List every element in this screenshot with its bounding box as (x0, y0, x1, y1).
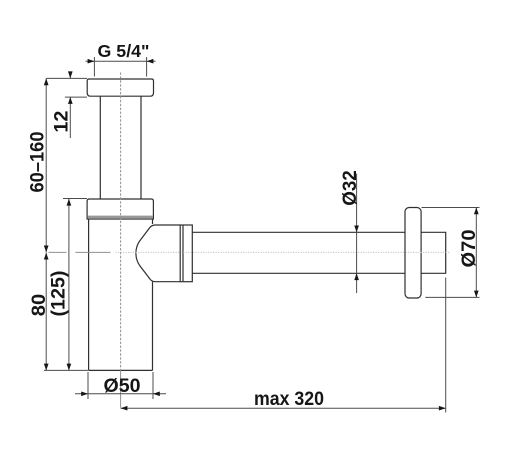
label 12 (51, 110, 73, 132)
dimension (125) (body overall height) (63, 199, 87, 371)
dimension O50 (cup diameter) (75, 372, 166, 399)
pipe end behind wall flange (421, 232, 446, 273)
label 80 (28, 294, 50, 317)
trap cup body (89, 219, 153, 370)
top flange (G 5/4 nut) (87, 79, 153, 96)
svg-text:60–160: 60–160 (27, 131, 49, 192)
svg-text:Ø50: Ø50 (104, 375, 141, 397)
elbow joint bulge (136, 225, 180, 282)
svg-text:12: 12 (51, 110, 73, 132)
label 60-160 (27, 131, 49, 192)
dimension max 320 (overall length) (121, 278, 446, 413)
label O32 (339, 170, 361, 206)
label max 320 (254, 388, 324, 410)
svg-text:G 5/4": G 5/4" (98, 41, 150, 61)
inlet vertical pipe (100, 96, 141, 199)
body nut bottom thick edge (88, 216, 153, 218)
label O70 (458, 229, 480, 267)
wall flange rosette (405, 208, 421, 299)
outlet horizontal pipe (192, 232, 405, 273)
dimension 60-160 (inlet height range) (45, 78, 47, 252)
svg-text:Ø70: Ø70 (458, 229, 480, 267)
dimension 12 (flange height) (46, 71, 87, 138)
label O50 (104, 375, 141, 397)
dimension G 5/4" (86, 57, 156, 77)
svg-text:Ø32: Ø32 (339, 170, 361, 206)
dimension 80 (body lower height) (44, 253, 88, 371)
svg-text:(125): (125) (48, 271, 70, 317)
svg-text:max 320: max 320 (254, 388, 324, 410)
dimension O70 (rosette diameter) (422, 208, 480, 298)
vertical centerline of trap body (120, 73, 122, 408)
elbow flange ring (180, 225, 192, 282)
dimension O32 (pipe diameter) (356, 174, 358, 294)
label G 5/4" (98, 41, 150, 61)
label (125) (48, 271, 70, 317)
horizontal centerline of outlet pipe (49, 251, 451, 253)
body nut (87, 199, 153, 219)
